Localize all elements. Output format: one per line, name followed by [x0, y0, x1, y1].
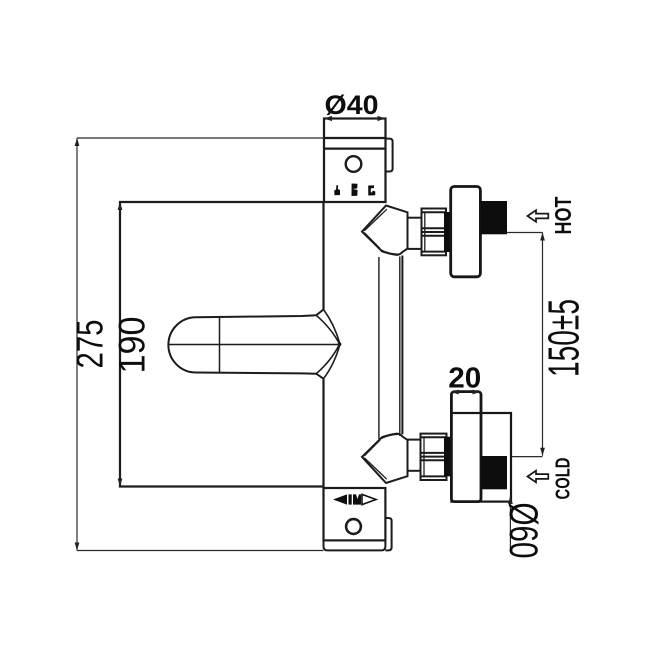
dimension Ø40 [324, 116, 386, 121]
cold flange [451, 392, 481, 502]
svg-text:COLD: COLD [553, 458, 575, 500]
lever mid line [168, 344, 340, 346]
bottom block (temperature stop housing) [324, 488, 386, 540]
wall plate outline box [120, 202, 324, 487]
svg-text:275: 275 [70, 320, 111, 369]
hot shadow band [444, 212, 452, 252]
cold shadow band [444, 437, 452, 477]
bottom base band [324, 540, 386, 550]
dimension Ø60 [509, 496, 511, 548]
svg-text:HOT: HOT [550, 197, 576, 235]
cold elbow [362, 434, 408, 483]
cold elbow facet lines [364, 434, 398, 479]
cold neck [408, 440, 421, 471]
dimension 20 [451, 390, 481, 395]
bottom screw circle [346, 519, 361, 534]
hot inlet pipe (black) [480, 201, 507, 234]
svg-text:20: 20 [448, 363, 481, 395]
cold inlet pipe (black) [481, 456, 507, 489]
top cap tiny mode marks [334, 184, 375, 197]
hot elbow facet lines [364, 209, 398, 254]
dimension 150±5 arrowheads [540, 233, 545, 456]
top cap block (mixer head) [324, 119, 386, 203]
bottom right clip tab [385, 518, 391, 550]
top cap right clip tab [386, 139, 393, 172]
dimension 190 arrows [118, 202, 123, 487]
hot neck [408, 218, 422, 249]
hot flow arrow [528, 210, 549, 222]
supply pipe lines between elbows [379, 256, 403, 440]
lever handle [168, 310, 323, 379]
temperature adjust arrows icon [333, 494, 376, 504]
svg-text:Ø60: Ø60 [501, 503, 545, 559]
svg-text:150±5: 150±5 [540, 299, 589, 377]
lever cone tip [338, 342, 342, 346]
svg-text:190: 190 [112, 317, 153, 374]
cold union nut [421, 434, 447, 480]
column body left edge [322, 202, 324, 488]
cold flow arrow [528, 471, 549, 483]
cold escutcheon plate [451, 413, 511, 502]
hot union nut [422, 209, 447, 256]
hot flange [451, 187, 481, 277]
svg-text:Ø40: Ø40 [325, 90, 379, 120]
dimension 150±5 [507, 233, 543, 457]
dimension 275 arrowheads [75, 138, 80, 551]
top cap screw circle [346, 156, 362, 172]
lever cone funnel lines [316, 310, 340, 379]
lever cross line [219, 317, 221, 374]
hot elbow [362, 206, 408, 255]
dimension 275 [77, 138, 324, 551]
